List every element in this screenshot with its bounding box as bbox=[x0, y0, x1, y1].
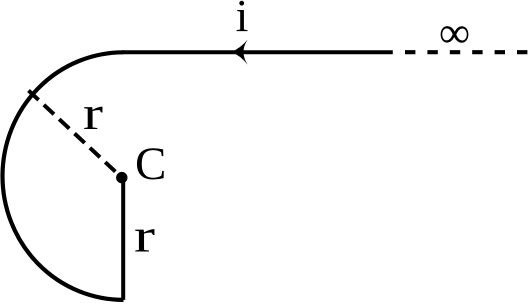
svg-text:∞: ∞ bbox=[439, 9, 470, 57]
wire: dashed lead to infinity bbox=[405, 50, 528, 54]
wire: horizontal lead from infinity bbox=[122, 50, 393, 54]
svg-text:C: C bbox=[135, 138, 166, 190]
dashed radius from arc to C bbox=[29, 91, 122, 178]
wire: semicircular arc around C bbox=[3, 52, 124, 300]
svg-text:r: r bbox=[83, 87, 103, 140]
vertical radius segment from C to arc bottom bbox=[121, 178, 125, 300]
point C dot bbox=[116, 172, 127, 183]
arrowhead: current direction (leftward) bbox=[231, 40, 247, 65]
svg-text:r: r bbox=[134, 209, 155, 262]
svg-text:i: i bbox=[236, 0, 249, 41]
